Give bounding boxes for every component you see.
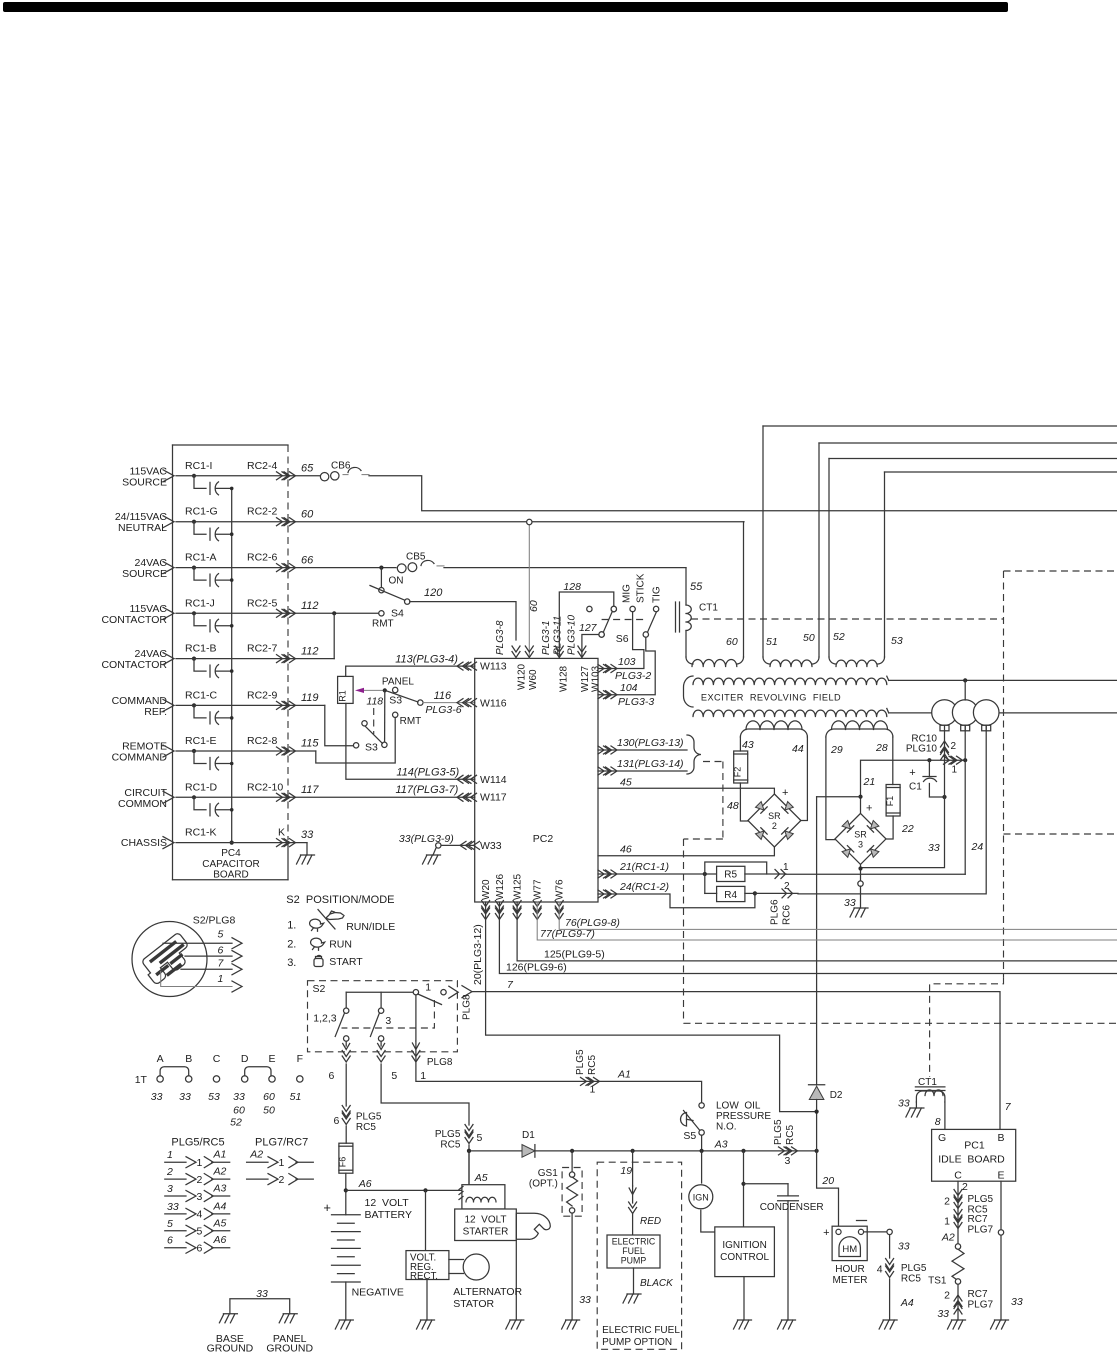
wire 50 to edge: [819, 442, 1117, 444]
svg-text:PLG5: PLG5: [435, 1129, 461, 1140]
wire starter ground: [515, 1241, 517, 1321]
svg-text:RC1-J: RC1-J: [185, 597, 215, 609]
wire 60 row: [176, 521, 744, 523]
wire 55: [444, 567, 686, 569]
fuel pump option dashed box: [597, 1162, 681, 1349]
svg-text:RECT.: RECT.: [410, 1271, 438, 1282]
svg-text:5: 5: [197, 1226, 203, 1238]
svg-text:BLACK: BLACK: [640, 1278, 674, 1289]
svg-text:PLG3-3: PLG3-3: [618, 696, 654, 708]
wire A1: [416, 1050, 702, 1103]
svg-text:3: 3: [197, 1191, 203, 1203]
svg-text:RC7: RC7: [968, 1214, 988, 1225]
hour meter HM: [832, 1226, 867, 1260]
svg-text:RC1-D: RC1-D: [185, 781, 218, 793]
svg-text:(OPT.): (OPT.): [529, 1179, 558, 1190]
svg-text:W33: W33: [480, 840, 502, 852]
connector PLG6 pin1: [745, 873, 786, 875]
wire negative: [345, 1282, 347, 1320]
capacitor on RC1-D: [192, 795, 196, 799]
board PC1 idle board: [932, 1129, 1016, 1181]
svg-text:W77: W77: [533, 879, 544, 900]
wire 20 hm: [817, 1151, 839, 1229]
wire D1 output: [467, 1149, 471, 1153]
starter bendix: [516, 1213, 550, 1239]
wire 48: [740, 783, 748, 821]
svg-text:28: 28: [875, 742, 888, 754]
svg-text:1: 1: [167, 1149, 173, 1161]
alternator stator: [463, 1254, 489, 1280]
pin W20 wire 20(PLG3-12): [482, 901, 490, 913]
svg-text:PRESSURE: PRESSURE: [716, 1111, 771, 1122]
svg-text:RC2-10: RC2-10: [247, 781, 283, 793]
svg-text:S6: S6: [616, 633, 629, 645]
svg-text:W116: W116: [480, 697, 507, 709]
svg-text:RMT: RMT: [372, 619, 394, 630]
svg-text:RC1-B: RC1-B: [185, 643, 217, 655]
connector RC2 dashed column: [287, 445, 289, 840]
svg-text:120: 120: [424, 587, 443, 599]
svg-text:W125: W125: [513, 873, 524, 900]
svg-text:PC2: PC2: [533, 833, 554, 845]
svg-text:PLG7: PLG7: [968, 1300, 994, 1311]
starter 12 volt: [455, 1209, 517, 1241]
svg-text:A3: A3: [213, 1183, 227, 1195]
starter solenoid: [462, 1185, 505, 1209]
svg-text:ELECTRIC: ELECTRIC: [612, 1237, 656, 1247]
svg-text:ON: ON: [389, 576, 404, 587]
svg-text:PLG3-1: PLG3-1: [541, 621, 552, 655]
ground hm A4: [879, 1320, 897, 1329]
svg-text:60: 60: [726, 636, 738, 648]
svg-text:PC1: PC1: [964, 1140, 985, 1152]
capacitor on RC1-G: [192, 520, 196, 524]
svg-text:118: 118: [366, 696, 383, 708]
wire 131: [598, 770, 687, 772]
svg-text:33: 33: [151, 1091, 163, 1103]
svg-text:117: 117: [301, 784, 319, 796]
svg-text:START: START: [329, 956, 363, 968]
ground condenser: [778, 1320, 796, 1329]
svg-text:12 VOLT: 12 VOLT: [464, 1215, 506, 1226]
wire sr3 plus to lamp2: [861, 760, 966, 797]
wire 51 to edge: [763, 425, 1117, 427]
svg-text:2: 2: [166, 1166, 173, 1178]
svg-text:5: 5: [477, 1132, 483, 1144]
ground vrr: [417, 1320, 435, 1329]
svg-text:PUMP: PUMP: [621, 1256, 647, 1266]
svg-text:130(PLG3-13): 130(PLG3-13): [617, 737, 684, 749]
svg-text:20(PLG3-12): 20(PLG3-12): [472, 924, 484, 985]
svg-text:IGNITION: IGNITION: [722, 1240, 766, 1251]
svg-text:RED: RED: [640, 1216, 661, 1227]
svg-text:PLG5: PLG5: [901, 1263, 927, 1274]
svg-text:NEUTRAL: NEUTRAL: [118, 522, 167, 534]
wire 116: [423, 702, 475, 704]
svg-text:W20: W20: [481, 879, 492, 900]
svg-text:MIG: MIG: [622, 584, 633, 603]
svg-text:CB6: CB6: [331, 461, 351, 472]
svg-text:60: 60: [263, 1091, 275, 1103]
svg-text:C: C: [213, 1053, 221, 1065]
svg-text:PLG3-2: PLG3-2: [615, 670, 651, 682]
svg-text:4: 4: [877, 1264, 883, 1276]
wire 117 row: [176, 796, 475, 798]
svg-text:60: 60: [301, 509, 314, 521]
svg-text:2: 2: [951, 741, 957, 752]
fuse F2: [734, 751, 748, 783]
rectifier SR3: [835, 813, 886, 864]
connector RC2 chevrons: [277, 747, 289, 755]
wire 33 hm: [864, 1231, 887, 1233]
wire 103: [598, 612, 644, 669]
svg-text:52: 52: [833, 631, 845, 643]
svg-text:W127: W127: [580, 665, 591, 692]
svg-text:ALTERNATOR: ALTERNATOR: [453, 1286, 522, 1298]
svg-text:A6: A6: [358, 1178, 372, 1190]
svg-text:43: 43: [742, 739, 754, 751]
svg-text:116: 116: [434, 690, 452, 702]
svg-text:GROUND: GROUND: [207, 1343, 254, 1352]
svg-text:2: 2: [279, 1174, 285, 1186]
wire 21 below D2: [816, 1100, 818, 1151]
svg-text:GROUND: GROUND: [266, 1343, 313, 1352]
svg-text:+: +: [823, 1227, 829, 1239]
svg-text:50: 50: [803, 632, 815, 644]
svg-text:33: 33: [1011, 1296, 1023, 1308]
svg-text:R1: R1: [337, 690, 347, 702]
R4 left link: [704, 874, 706, 893]
svg-text:A4: A4: [900, 1297, 914, 1309]
svg-text:B: B: [997, 1132, 1004, 1144]
wire 29 to SR3: [826, 737, 835, 840]
diode D2: [809, 1084, 825, 1086]
rectifier SR2: [748, 794, 801, 847]
capacitor common rail: [231, 488, 233, 842]
wire A3: [469, 1150, 817, 1152]
svg-text:CONTACTOR: CONTACTOR: [101, 614, 167, 626]
wire ign control ground: [743, 1277, 745, 1320]
svg-text:112: 112: [301, 600, 319, 612]
svg-text:33: 33: [167, 1201, 179, 1213]
connector RC7/PLG7 pin2: [954, 1295, 962, 1307]
svg-text:A2: A2: [249, 1148, 263, 1160]
capacitor on RC1-I: [192, 474, 196, 478]
svg-text:RC2-7: RC2-7: [247, 643, 278, 655]
coil 43-44 winding: [740, 729, 807, 737]
wire 117 pc2 chevrons: [457, 793, 469, 801]
svg-text:33: 33: [937, 1308, 949, 1320]
svg-text:1T: 1T: [135, 1074, 148, 1086]
svg-text:D: D: [241, 1053, 249, 1065]
svg-text:1: 1: [279, 1157, 285, 1169]
svg-text:RC1-E: RC1-E: [185, 735, 217, 747]
svg-text:W128: W128: [559, 665, 570, 692]
svg-text:RC1-G: RC1-G: [185, 506, 218, 518]
switch S4 feed: [379, 566, 383, 570]
wire vrr ground: [426, 1280, 428, 1321]
svg-text:RUN: RUN: [329, 938, 352, 950]
wire 5 route: [381, 1064, 469, 1125]
svg-text:2: 2: [944, 1196, 950, 1208]
switch S2 dashed box: [308, 981, 458, 1052]
wire 115 to S3 RMT: [316, 718, 395, 764]
ground fuel pump: [623, 1294, 641, 1303]
coil 60 (gen aux winding): [686, 657, 693, 664]
wire 44 to SR2: [801, 737, 808, 821]
ground sr3 33: [860, 886, 862, 908]
PC4 capacitor board box: [173, 444, 289, 446]
svg-text:53: 53: [891, 635, 903, 647]
svg-text:PLG10: PLG10: [906, 744, 938, 755]
capacitor on RC1-B: [192, 657, 196, 661]
svg-text:S2: S2: [313, 983, 326, 995]
wire 65 to right edge: [369, 476, 1117, 511]
connector PLG6 pin2: [755, 892, 798, 894]
svg-text:S5: S5: [683, 1130, 696, 1142]
svg-text:RC2-8: RC2-8: [247, 735, 278, 747]
svg-text:21(RC1-1): 21(RC1-1): [619, 861, 669, 873]
svg-text:W120: W120: [517, 663, 528, 690]
svg-text:EXCITER REVOLVING FIELD: EXCITER REVOLVING FIELD: [701, 693, 841, 703]
svg-text:STARTER: STARTER: [463, 1227, 509, 1238]
pin W125 wire 125(PLG9-5): [513, 901, 521, 913]
lamp L2: [952, 700, 978, 726]
resistor R4: [717, 886, 745, 901]
svg-text:8: 8: [935, 1116, 941, 1128]
connector PLG5/RC5 pin3: [779, 1147, 791, 1155]
svg-text:CONTACTOR: CONTACTOR: [101, 659, 167, 671]
svg-text:D1: D1: [522, 1130, 535, 1141]
transformer CT1 primary: [675, 602, 677, 632]
svg-text:COMMON: COMMON: [118, 798, 167, 810]
left entry arrow: [163, 470, 174, 482]
svg-text:1: 1: [420, 1070, 426, 1082]
ground chassis 33: [306, 843, 308, 855]
svg-text:+: +: [782, 787, 788, 799]
svg-text:21: 21: [863, 776, 876, 788]
wire 104: [598, 637, 655, 695]
connector PLG8 below S2: [342, 1051, 350, 1063]
svg-text:S3: S3: [365, 742, 378, 754]
wire sr3 minus: [860, 864, 862, 881]
connector RC2 chevrons: [277, 655, 289, 663]
wire pc1 C pin 2: [957, 1181, 959, 1244]
svg-text:PLG5: PLG5: [773, 1119, 784, 1145]
svg-text:PUMP OPTION: PUMP OPTION: [602, 1337, 672, 1348]
svg-text:33: 33: [898, 1241, 910, 1253]
svg-text:ELECTRIC FUEL: ELECTRIC FUEL: [602, 1325, 680, 1336]
svg-text:R4: R4: [724, 890, 737, 901]
ground base: [219, 1314, 237, 1323]
wire 120: [410, 602, 516, 640]
svg-text:3: 3: [167, 1183, 173, 1195]
svg-text:128: 128: [563, 581, 581, 593]
capacitor on RC1-A: [192, 566, 196, 570]
svg-text:D2: D2: [830, 1090, 843, 1101]
fuse F1: [886, 785, 900, 817]
fuse F6: [339, 1143, 353, 1173]
svg-text:RUN/IDLE: RUN/IDLE: [346, 921, 395, 933]
svg-text:2.: 2.: [287, 938, 296, 950]
wire 45: [598, 788, 774, 794]
svg-text:F2: F2: [733, 767, 743, 778]
brace plg3-13/14: [687, 735, 701, 774]
svg-text:G: G: [938, 1132, 946, 1144]
svg-text:PLG7/RC7: PLG7/RC7: [255, 1136, 308, 1148]
capacitor on RC1-E: [192, 749, 196, 753]
ignition control box: [715, 1227, 775, 1277]
left entry arrow: [163, 653, 174, 665]
svg-text:+: +: [909, 767, 915, 779]
wire 21 drop to D2: [816, 797, 818, 1085]
svg-text:33: 33: [301, 829, 314, 841]
pin W76 wire 76(PLG9-8): [555, 901, 563, 913]
svg-text:33: 33: [579, 1294, 591, 1306]
left entry arrow: [163, 516, 174, 528]
svg-text:BATTERY: BATTERY: [365, 1209, 412, 1221]
svg-text:E: E: [268, 1053, 275, 1065]
svg-text:RC2-2: RC2-2: [247, 506, 278, 518]
svg-text:6: 6: [197, 1243, 203, 1255]
svg-text:52: 52: [230, 1117, 242, 1129]
svg-text:R5: R5: [724, 870, 737, 881]
svg-text:33(PLG3-9): 33(PLG3-9): [399, 833, 454, 845]
wire lamp2 bottom: [964, 725, 966, 874]
wire 7 plg8: [462, 986, 472, 998]
svg-text:66: 66: [301, 555, 314, 567]
svg-text:HM: HM: [842, 1244, 857, 1255]
svg-text:112: 112: [301, 646, 319, 658]
plg7 row 2: [247, 1178, 268, 1180]
left entry arrow: [163, 699, 174, 711]
svg-text:HOUR: HOUR: [835, 1264, 864, 1275]
svg-text:3: 3: [785, 1155, 791, 1167]
connector RC10/PLG10: [944, 731, 946, 761]
svg-text:RC2-5: RC2-5: [247, 597, 278, 609]
svg-text:N.O.: N.O.: [716, 1122, 737, 1133]
wire pc1 E pin: [1000, 1181, 1002, 1320]
left entry arrow: [163, 562, 174, 574]
svg-text:RC1-K: RC1-K: [185, 827, 217, 839]
ground starter: [506, 1320, 524, 1329]
svg-text:60: 60: [528, 600, 540, 612]
svg-text:RC5: RC5: [587, 1055, 598, 1075]
connector PLG5/RC5 pin4: [886, 1259, 894, 1271]
svg-text:3: 3: [858, 839, 863, 849]
svg-text:PLG6: PLG6: [770, 899, 781, 925]
svg-text:W126: W126: [495, 873, 506, 900]
S6 blade pole2: [648, 612, 657, 632]
wire exciter top to edge: [889, 679, 1117, 681]
svg-text:A3: A3: [714, 1139, 728, 1151]
wire 119 to S3: [325, 705, 354, 745]
svg-text:1: 1: [590, 1084, 596, 1096]
svg-text:+: +: [323, 1200, 331, 1215]
svg-text:C1: C1: [909, 782, 922, 793]
svg-text:2: 2: [772, 821, 777, 831]
svg-text:+: +: [866, 803, 872, 815]
wire 130: [598, 749, 687, 751]
wire A5 to starter: [468, 1151, 470, 1185]
svg-text:RC5: RC5: [440, 1140, 460, 1151]
svg-text:RMT: RMT: [400, 716, 422, 727]
svg-text:6: 6: [329, 1070, 335, 1082]
svg-text:5: 5: [391, 1070, 397, 1082]
wire 118: [384, 690, 386, 742]
svg-text:W114: W114: [480, 774, 507, 786]
svg-text:1: 1: [944, 1216, 950, 1228]
ground panel: [279, 1314, 297, 1323]
svg-text:W103: W103: [591, 665, 602, 692]
pin W128 wire 128: [559, 592, 614, 658]
svg-text:NEGATIVE: NEGATIVE: [352, 1287, 404, 1299]
svg-text:55: 55: [690, 581, 703, 593]
wire 114: [346, 703, 475, 779]
resistor R1: [338, 676, 354, 703]
svg-text:A: A: [157, 1053, 164, 1065]
svg-text:103: 103: [618, 656, 636, 668]
R4 right: [745, 892, 755, 894]
switch S5 low oil pressure: [699, 1103, 704, 1108]
resistor R5: [717, 866, 745, 881]
connector PLG5/RC5 pin6: [342, 1106, 350, 1118]
svg-text:6: 6: [334, 1115, 340, 1127]
wire 21 rc1-1: [598, 873, 717, 875]
svg-text:A1: A1: [617, 1069, 631, 1081]
svg-text:SR: SR: [768, 811, 781, 821]
svg-text:127: 127: [579, 622, 598, 634]
wire 46: [598, 847, 774, 856]
wire 6: [345, 1064, 347, 1106]
ground ct1: [906, 1108, 924, 1117]
svg-text:PLG5: PLG5: [575, 1049, 586, 1075]
svg-text:119: 119: [301, 692, 319, 704]
svg-text:A5: A5: [213, 1217, 227, 1229]
wire 112 jog: [332, 611, 336, 615]
svg-text:33: 33: [233, 1091, 245, 1103]
exciter revolving field coil: [684, 676, 694, 707]
svg-text:PLG7: PLG7: [968, 1225, 994, 1236]
svg-text:RC5: RC5: [901, 1274, 921, 1285]
coil 29-28 winding: [826, 729, 893, 737]
svg-text:131(PLG3-14): 131(PLG3-14): [617, 758, 684, 770]
electric fuel pump box: [607, 1235, 660, 1268]
GS1 element: [571, 1151, 573, 1172]
wire 119 row: [176, 704, 325, 706]
svg-text:PC4: PC4: [221, 848, 241, 859]
pin W127 wire 127: [582, 635, 599, 659]
svg-text:126(PLG9-6): 126(PLG9-6): [506, 962, 567, 974]
pin W126 wire 126(PLG9-6): [495, 901, 503, 913]
ground pc1 E: [991, 1320, 1009, 1329]
svg-text:46: 46: [620, 844, 632, 856]
left entry arrow: [163, 607, 174, 619]
connector RC2 chevrons: [277, 564, 289, 572]
svg-text:PLG8: PLG8: [427, 1057, 453, 1068]
svg-text:PLG3-6: PLG3-6: [425, 704, 461, 716]
mech link S3 dashed: [373, 708, 375, 734]
svg-text:PLG8: PLG8: [462, 994, 473, 1020]
svg-text:K: K: [278, 827, 285, 839]
jumper 1T D-E: [245, 1067, 271, 1076]
capacitor C1: [928, 760, 930, 776]
svg-text:6: 6: [167, 1235, 173, 1247]
diode D1: [522, 1145, 535, 1158]
svg-text:SOURCE: SOURCE: [122, 568, 167, 580]
svg-text:GS1: GS1: [538, 1168, 558, 1179]
svg-text:REF.: REF.: [144, 706, 167, 718]
